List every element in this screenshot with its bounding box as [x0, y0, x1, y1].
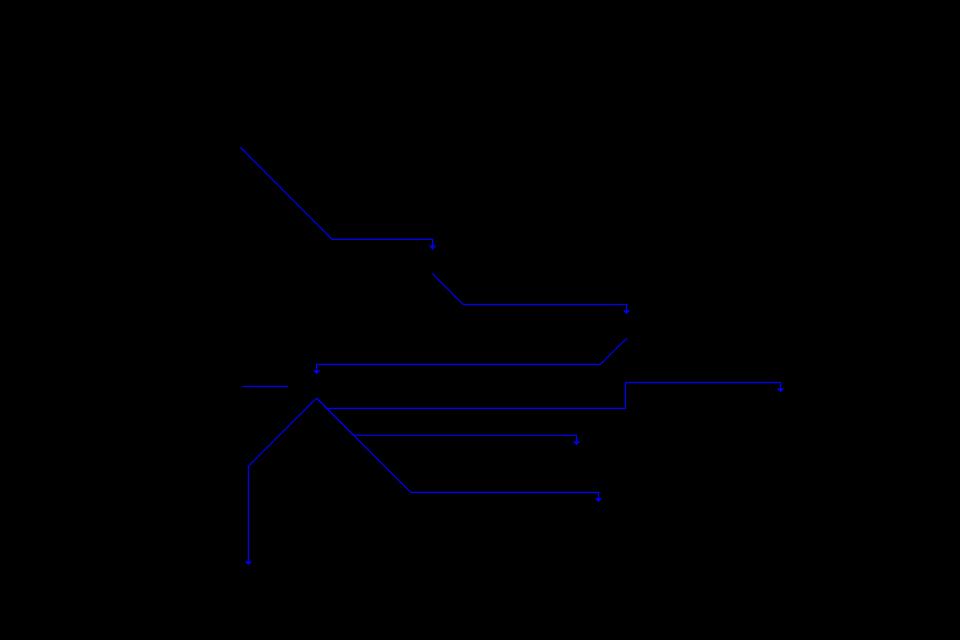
wire edge E2	[432, 273, 626, 310]
wire edge E1	[240, 147, 432, 245]
arrowhead E6	[573, 441, 580, 445]
wire edge E6	[317, 398, 577, 441]
arrowhead E7	[595, 498, 602, 502]
wire edge E3	[317, 338, 627, 370]
arrowhead E5	[777, 388, 784, 392]
arrowhead E1	[429, 246, 436, 250]
wire edge E5	[317, 383, 781, 409]
arrowhead E8	[245, 561, 252, 565]
wire edge E4 (short dash into node)	[243, 385, 288, 387]
arrowhead E2	[623, 310, 630, 314]
arrowhead E3	[313, 370, 320, 374]
wire edge E7	[317, 398, 599, 498]
wire edge E8	[248, 398, 316, 561]
